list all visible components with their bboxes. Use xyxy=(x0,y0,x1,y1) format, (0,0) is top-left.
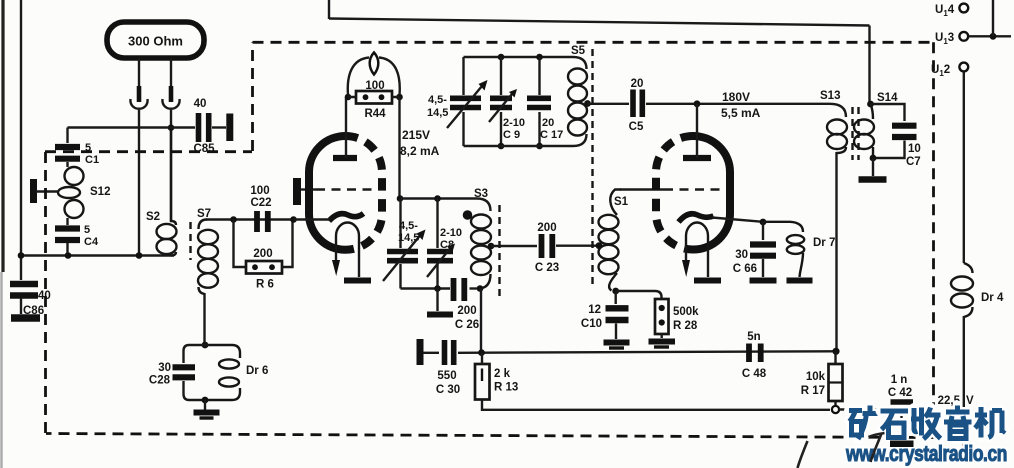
node: C22 right xyxy=(290,216,297,223)
wire: V2 filament right lead xyxy=(707,250,709,277)
svg-text:R 28: R 28 xyxy=(673,320,698,332)
svg-text:5: 5 xyxy=(84,224,90,236)
svg-text:V: V xyxy=(966,395,974,407)
tube V2 envelope (solid right) xyxy=(693,136,730,250)
svg-text:www.crystalradio.cn: www.crystalradio.cn xyxy=(845,441,1007,466)
node: C8 bottom xyxy=(434,285,441,292)
capacitor C42 xyxy=(891,402,914,410)
ground bar below tank xyxy=(427,312,453,318)
wire: vertical to top edge xyxy=(992,0,994,36)
wire: Dr6 ring bottom/left xyxy=(184,381,206,400)
resistor R13 xyxy=(475,364,490,400)
svg-text:C5: C5 xyxy=(629,121,644,133)
arrow filament V1 xyxy=(332,260,340,276)
node: AF bus / S13 drop xyxy=(832,348,839,355)
trimmer capacitor C9 xyxy=(500,57,502,95)
tube V1 envelope (solid left) xyxy=(309,136,346,250)
resistor R28 xyxy=(655,299,669,334)
node: AF bus / R13 xyxy=(478,349,485,356)
node: cathode/C66 xyxy=(760,219,767,226)
coil S3 xyxy=(471,215,491,289)
node: C9 top xyxy=(498,54,505,61)
capacitor C17 xyxy=(538,57,540,95)
node: S1 bottom xyxy=(612,288,619,295)
wire: right antenna lead down to S2 xyxy=(170,110,172,222)
tube V2 anode plate xyxy=(683,155,711,161)
svg-text:200: 200 xyxy=(457,305,476,317)
node: S3 output tap xyxy=(488,243,495,250)
svg-text:Dr 4: Dr 4 xyxy=(981,292,1004,304)
pen mark 7 xyxy=(869,433,885,462)
watermark glyph shi xyxy=(881,411,909,438)
node: C17 bottom xyxy=(536,143,543,150)
tube V1 anode plate xyxy=(333,155,357,161)
svg-text:20: 20 xyxy=(631,78,644,90)
ground bar Dr7 xyxy=(787,278,813,284)
tube V1 envelope (dashed right) xyxy=(346,136,383,250)
svg-text:14,5: 14,5 xyxy=(427,107,448,119)
capacitor C48 xyxy=(749,344,761,363)
node R44 left xyxy=(345,94,352,101)
svg-text:S5: S5 xyxy=(571,45,586,57)
terminal U1 3 xyxy=(959,32,968,41)
antenna 300 Ohm loop xyxy=(107,22,204,58)
wire: C1 to S12 xyxy=(66,162,68,167)
wire: C23 to S1 tap xyxy=(556,244,598,246)
capacitor C7 xyxy=(892,126,917,137)
wire: Dr6 ring top/left xyxy=(184,345,206,363)
watermark glyph ji xyxy=(975,407,1005,438)
ground bar S14 xyxy=(859,176,887,183)
wire: left feeder vertical xyxy=(20,0,22,280)
coil S2 xyxy=(157,131,177,256)
node: C8 top xyxy=(434,195,441,202)
dashed border right xyxy=(932,42,935,436)
ground bars C10 xyxy=(604,340,630,346)
svg-text:S12: S12 xyxy=(90,186,110,198)
wire: V2 filament left lead xyxy=(685,250,687,261)
svg-text:S14: S14 xyxy=(877,92,898,104)
resistor R6 xyxy=(246,261,282,274)
capacitor C26 xyxy=(454,278,465,301)
svg-text:R 13: R 13 xyxy=(494,382,518,394)
coil S7 xyxy=(198,220,218,295)
wire: filament right lead xyxy=(358,250,360,277)
pen mark slash xyxy=(798,441,808,468)
wire: C10 ground stub xyxy=(615,324,617,340)
node: bus/antenna lead xyxy=(136,252,143,259)
svg-text:200: 200 xyxy=(253,248,272,260)
capacitor C1 xyxy=(55,147,80,159)
wire: Dr6 ground stub xyxy=(204,400,206,410)
wire: S5 tank left branch xyxy=(462,57,464,95)
node: S14 bottom xyxy=(870,155,877,162)
svg-text:C 23: C 23 xyxy=(535,262,559,274)
node: C17 top xyxy=(536,54,543,61)
svg-text:C28: C28 xyxy=(149,375,171,387)
wire: top bus vertical at left xyxy=(328,0,330,19)
ground below Dr6 xyxy=(194,410,220,416)
trimmer capacitor C8 xyxy=(436,199,438,249)
svg-text:C 26: C 26 xyxy=(455,319,479,331)
wire: S1 grid lead to tube V2 xyxy=(620,188,664,190)
variable capacitor 4,5-14,5 (lower) xyxy=(399,199,401,249)
svg-text:Dr 7: Dr 7 xyxy=(813,237,835,249)
tube V2 cathode xyxy=(679,214,714,222)
svg-text:10k: 10k xyxy=(806,371,826,383)
svg-text:R 6: R 6 xyxy=(256,279,274,291)
node: antenna/C85 junction xyxy=(168,124,175,131)
terminal U1 4 xyxy=(959,4,968,13)
svg-text:4,5-: 4,5- xyxy=(399,220,418,232)
svg-text:2-10: 2-10 xyxy=(503,117,525,129)
wire: C66 stub xyxy=(762,222,764,240)
svg-text:R 17: R 17 xyxy=(801,385,825,397)
node: V2 anode junction xyxy=(694,100,701,107)
node: S3 top wire left xyxy=(397,195,404,202)
tube V2 grid (dashed) xyxy=(664,188,722,191)
wire: grid bus S7 to tube 1 xyxy=(206,218,295,220)
arrow of C9 xyxy=(489,94,512,122)
node: Dr6 bottom xyxy=(202,397,209,404)
capacitor C86 xyxy=(10,284,38,296)
svg-text:C8: C8 xyxy=(440,239,454,251)
dashed border top xyxy=(253,41,934,44)
node: bus/C4 xyxy=(65,252,72,259)
svg-text:C22: C22 xyxy=(250,197,271,209)
wire: U1 3 lead xyxy=(969,35,1012,37)
svg-text:C 66: C 66 xyxy=(733,263,757,275)
resistor R17 xyxy=(829,364,843,401)
svg-text:100: 100 xyxy=(250,185,269,197)
svg-text:4,5-: 4,5- xyxy=(428,94,447,106)
plug socket left xyxy=(130,99,147,109)
svg-text:C 42: C 42 xyxy=(888,387,912,399)
wire: V2 cathode lead xyxy=(712,218,763,222)
wire: return bus right of terminal xyxy=(839,408,930,410)
tube V2 filament xyxy=(686,223,708,251)
tube V1 cathode xyxy=(329,214,364,222)
svg-text:S3: S3 xyxy=(474,188,488,200)
variable capacitor 4,5-14,5 (S5 tank) xyxy=(450,98,481,107)
wire: plate supply line 180V xyxy=(646,104,846,117)
wire: anode lead up to R44 xyxy=(345,97,347,158)
terminal bar tube1 grid xyxy=(293,178,301,205)
wire: R13 bottom to return bus xyxy=(482,400,830,410)
node R44 right xyxy=(396,94,403,101)
plug pin right xyxy=(169,86,174,102)
resistor R44 xyxy=(356,91,392,104)
wire: S13 bottom long drop xyxy=(835,152,837,352)
svg-text:R44: R44 xyxy=(364,108,386,120)
ground bars R28 xyxy=(649,339,676,345)
svg-text:1 n: 1 n xyxy=(891,374,908,386)
wire: grid lead tube1 xyxy=(301,188,316,190)
wire: tank ground stub xyxy=(436,289,438,312)
dashed border top-left segment xyxy=(45,150,252,153)
svg-text:14,5: 14,5 xyxy=(398,232,419,244)
transformer core S13/S14 xyxy=(851,107,853,160)
arrow of C8 xyxy=(427,249,450,278)
svg-text:40: 40 xyxy=(194,98,207,110)
wire: cathode lead to node xyxy=(295,218,331,220)
svg-text:C10: C10 xyxy=(581,318,602,330)
wire: C4 down to bus xyxy=(66,243,68,256)
svg-text:C 9: C 9 xyxy=(503,129,520,141)
choke parallel with R44 xyxy=(348,58,369,96)
ground bar C42 xyxy=(890,440,914,447)
svg-text:U12: U12 xyxy=(931,64,950,78)
svg-text:S13: S13 xyxy=(820,90,840,102)
coil S5 xyxy=(568,69,587,136)
choke Dr6 xyxy=(205,345,240,400)
wire: R6 parallel loop left xyxy=(234,220,247,268)
lens of choke above R44 xyxy=(370,53,379,75)
svg-text:Dr 6: Dr 6 xyxy=(246,365,268,377)
capacitor C85 xyxy=(199,113,209,142)
wire: R17 top stub xyxy=(834,351,836,364)
tube V2 envelope (dashed left) xyxy=(656,136,693,250)
wire: R13 top stub xyxy=(481,353,483,364)
ground bar tube V2 xyxy=(694,278,721,284)
svg-text:20: 20 xyxy=(542,117,554,129)
capacitor C28 xyxy=(173,367,196,377)
wire: S5 tap to C5 xyxy=(588,103,630,105)
capacitor C4 xyxy=(55,229,80,241)
svg-text:8,2 mA: 8,2 mA xyxy=(400,144,440,158)
svg-text:C86: C86 xyxy=(23,305,44,317)
wire: antenna lead right xyxy=(170,58,172,88)
svg-text:10: 10 xyxy=(908,143,921,155)
choke Dr4 xyxy=(951,263,973,317)
coil S12 with slider oval xyxy=(58,167,84,218)
wire: C86 stub xyxy=(20,298,22,314)
wire: V2 anode lead xyxy=(696,104,698,158)
svg-text:S2: S2 xyxy=(146,211,160,223)
node: S3 upper tap dot xyxy=(463,210,473,220)
wire: C85 to terminal xyxy=(212,126,226,128)
plug socket right xyxy=(162,99,179,109)
node: U1 3 wire xyxy=(990,33,997,40)
svg-text:300 Ohm: 300 Ohm xyxy=(128,34,183,49)
svg-text:2 k: 2 k xyxy=(494,368,511,380)
svg-text:C 17: C 17 xyxy=(540,129,563,141)
dashed border left xyxy=(44,152,47,433)
core dash S3 xyxy=(498,205,500,296)
watermark glyph kuang xyxy=(849,406,878,440)
wire: anode supply drop (R44 right to S3 top wire) xyxy=(398,97,400,199)
capacitor C22 xyxy=(257,211,268,232)
svg-text:12: 12 xyxy=(588,304,601,316)
terminal bar below C86 xyxy=(11,314,40,322)
wire: top bus drop to S14 xyxy=(868,26,870,105)
svg-text:30: 30 xyxy=(735,249,748,261)
svg-text:S7: S7 xyxy=(197,208,211,220)
wire: top bus horizontal xyxy=(329,19,870,26)
wire: C30 left stub xyxy=(423,352,439,354)
svg-text:C7: C7 xyxy=(906,156,921,168)
arrow of variable cap (S5) xyxy=(447,86,482,128)
wire: R6 parallel loop right xyxy=(282,220,293,268)
tube V1 filament xyxy=(336,223,359,251)
watermark glyph shou xyxy=(911,408,941,440)
coil S1 xyxy=(599,190,622,291)
wire: Dr4 down to bottom xyxy=(963,316,965,456)
node: S14 top xyxy=(867,101,874,108)
svg-text:C 48: C 48 xyxy=(742,368,767,380)
wire: S5 tank top xyxy=(464,57,587,69)
capacitor C23 xyxy=(542,234,553,258)
svg-text:200: 200 xyxy=(537,222,556,234)
node: bus/feeder xyxy=(18,252,25,259)
wire: tap to C23 xyxy=(491,245,537,247)
svg-text:U13: U13 xyxy=(935,32,954,46)
svg-text:215V: 215V xyxy=(402,128,430,142)
capacitor C66 xyxy=(750,245,776,256)
node: output terminal (open) xyxy=(832,406,839,413)
wire: S1 bottom to C10/R28 xyxy=(616,291,662,299)
capacitor C5 xyxy=(633,90,642,118)
wire: S12 to C4 xyxy=(66,218,68,225)
coil S13 xyxy=(827,120,847,154)
wire: S14 ground stub xyxy=(872,158,874,176)
svg-text:C 30: C 30 xyxy=(436,384,460,396)
core dash S2/S7 xyxy=(189,222,191,260)
wire: filament left lead xyxy=(335,250,337,261)
wire: antenna lead left xyxy=(138,58,140,88)
node: S1 tap xyxy=(596,242,603,249)
page edge line left xyxy=(1,0,4,272)
wire: C42 stub down xyxy=(900,412,902,440)
watermark glyph yin xyxy=(944,406,972,439)
tube V1 grid (dashed) xyxy=(316,188,374,191)
svg-text:180V: 180V xyxy=(722,90,750,104)
dashed border bottom xyxy=(46,434,934,438)
wire: lower-left bus xyxy=(21,254,174,256)
terminal bar C30 xyxy=(417,339,424,365)
wire: S7 bottom to Dr6 xyxy=(203,293,205,345)
wire: C85 horizontal xyxy=(68,126,196,128)
wire: S5 tank bottom xyxy=(464,134,587,146)
terminal bar right of C85 xyxy=(226,114,233,142)
terminal bar left of S12 xyxy=(30,179,37,203)
svg-text:100: 100 xyxy=(365,80,384,92)
wire: S3 tank top xyxy=(400,199,491,212)
choke Dr7 xyxy=(763,222,804,277)
dashed border notch vertical xyxy=(251,43,254,152)
wire: S3 tank bottom xyxy=(401,287,451,289)
wire: R28 ground stub xyxy=(661,334,663,338)
ground bar C66 xyxy=(750,278,777,284)
wire: down to C1 xyxy=(66,128,68,144)
plug pin left xyxy=(137,86,142,102)
node: S5 output tap xyxy=(584,100,591,107)
svg-text:5n: 5n xyxy=(747,331,760,343)
svg-text:U14: U14 xyxy=(935,4,955,18)
svg-text:S1: S1 xyxy=(614,196,629,208)
wire: R17 bottom stub xyxy=(834,401,836,406)
svg-text:30: 30 xyxy=(158,362,171,374)
svg-text:2-10: 2-10 xyxy=(440,227,462,239)
arrow filament V2 xyxy=(682,260,690,277)
page edge shade lower-left xyxy=(0,272,2,468)
wire: AF bus xyxy=(458,351,833,353)
wire: C66 ground stub xyxy=(762,259,764,277)
arrow of variable cap xyxy=(383,236,420,282)
node: Dr6 top xyxy=(202,342,209,349)
wire: C7 bottom to S14 bottom xyxy=(873,141,905,159)
svg-text:5,5 mA: 5,5 mA xyxy=(721,106,761,120)
svg-text:550: 550 xyxy=(437,370,456,382)
wire: S12 slider lead xyxy=(36,190,58,192)
node: C22 left xyxy=(230,216,237,223)
wire: left antenna lead down to bus xyxy=(138,110,140,256)
terminal U1 2 xyxy=(959,63,968,72)
svg-text:C85: C85 xyxy=(193,143,215,155)
core dash S5/S1 xyxy=(591,49,593,288)
coil S14 xyxy=(854,104,874,158)
svg-text:C1: C1 xyxy=(85,154,99,166)
svg-text:C4: C4 xyxy=(84,236,99,248)
wire: U1 2 drop to Dr4 xyxy=(963,72,965,263)
wire: S14 to C7 top xyxy=(871,104,905,121)
capacitor C10 xyxy=(615,291,617,304)
ground bar tube V1 xyxy=(344,278,371,284)
capacitor C30 xyxy=(445,340,454,365)
node: C9 bottom xyxy=(498,143,505,150)
node: S3 bottom xyxy=(477,285,484,292)
wire: S3 bottom down to AF bus xyxy=(480,289,482,353)
svg-text:500k: 500k xyxy=(673,306,699,318)
